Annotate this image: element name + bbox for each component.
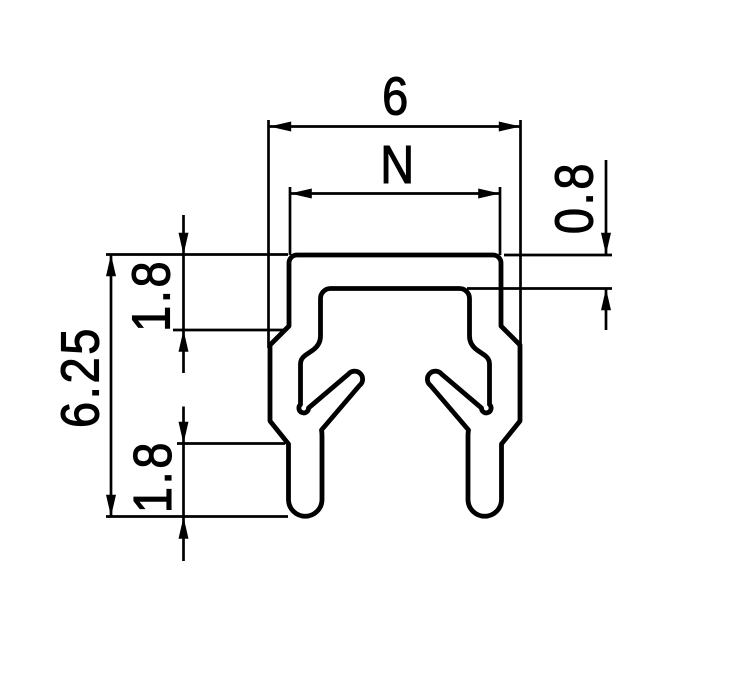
svg-text:6: 6 [382,65,411,126]
ext line bottom for dim 6.25 [106,515,288,518]
ext line right for dim N [499,187,502,255]
arrow up dim 6.25 [106,255,116,277]
ext line left for dim 6 [267,120,270,348]
dim line 1.8 upper [182,215,185,373]
ext line left for dim N [289,187,292,255]
arrow down dim 0.8 [601,233,611,255]
arrow right dim 6 [499,122,521,132]
arrow down dim 1.8 lower [179,422,189,444]
arrow down dim 1.8 upper [179,233,189,255]
arrow left dim 6 [269,122,291,132]
ext line bottom for dim 1.8 upper [173,329,285,332]
arrow up dim 1.8 lower [179,517,189,539]
ext line top for dim 0.8 [504,254,612,257]
dim line N [290,192,500,195]
svg-text:N: N [380,134,417,195]
arrow right dim N [478,189,500,199]
dim line 0.8 lower [605,289,608,331]
svg-text:1.8: 1.8 [122,440,183,513]
ext line right for dim 6 [519,120,522,348]
dim line 6 [269,125,520,128]
ext line top for dim 6.25 [106,253,288,256]
svg-text:0.8: 0.8 [543,161,604,234]
arrow up dim 1.8 upper [179,330,189,352]
dim line 0.8 upper [605,160,608,255]
svg-text:6.25: 6.25 [49,326,110,428]
arrow left dim N [290,189,312,199]
extrusion profile outline [270,255,520,516]
dim line 6.25 [110,255,113,517]
ext line top for dim 1.8 lower [177,442,285,445]
dim line 1.8 lower [182,407,185,562]
svg-text:1.8: 1.8 [121,259,182,332]
ext line bottom for dim 0.8 [467,287,612,290]
arrow down dim 6.25 [106,495,116,517]
arrow up dim 0.8 [601,289,611,311]
